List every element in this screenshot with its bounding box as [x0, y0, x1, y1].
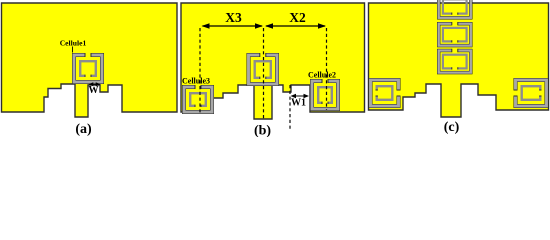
svg-text:W: W	[89, 85, 99, 96]
svg-text:(c): (c)	[444, 120, 460, 135]
svg-text:(b): (b)	[254, 124, 271, 138]
cell stack middle (panel c)	[439, 22, 471, 46]
svg-text:X3: X3	[225, 10, 242, 25]
dashed line center (feed axis)	[263, 28, 265, 119]
cell Cellule2 (panel b right)	[312, 79, 338, 110]
svg-text:Cellule2: Cellule2	[308, 71, 336, 80]
svg-text:X2: X2	[289, 10, 306, 25]
dashed line W1 edge	[289, 85, 291, 131]
cell Cellule3 (panel b left)	[184, 85, 212, 113]
cell right (panel c)	[513, 80, 547, 106]
arrow X2	[265, 23, 326, 29]
arrow W (panel a)	[89, 82, 101, 86]
arrow W1	[291, 94, 310, 98]
panel c antenna patch outline	[369, 3, 549, 117]
cell stack top (panel c)	[439, 0, 471, 18]
cell left (panel c)	[371, 80, 402, 106]
svg-text:Cellule3: Cellule3	[182, 77, 210, 86]
dashed line right (X2 edge)	[326, 28, 328, 110]
cell center (panel b, on feed)	[249, 53, 278, 85]
panel b antenna patch outline	[181, 3, 365, 119]
cell Cellule1 (panel a)	[74, 53, 102, 83]
svg-text:Cellule1: Cellule1	[60, 39, 87, 48]
svg-text:(a): (a)	[75, 122, 92, 137]
dashed line left (X3 edge)	[199, 28, 201, 113]
cell stack bottom (panel c)	[439, 48, 471, 72]
panel a antenna patch outline	[2, 3, 178, 117]
svg-text:W1: W1	[291, 98, 306, 109]
arrow X3	[202, 23, 264, 29]
leader line under Cellule1 label	[72, 47, 74, 53]
